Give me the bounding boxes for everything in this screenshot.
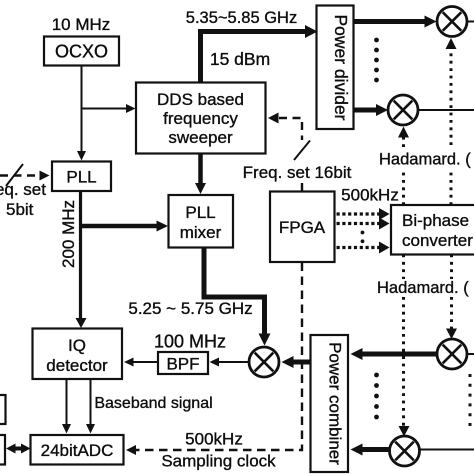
mixer M3 (437, 339, 467, 369)
block Power combiner (311, 335, 349, 472)
svg-text:PLL: PLL (66, 168, 96, 187)
wire power combiner to mixer M5 (thick) (282, 356, 311, 368)
label 500kHz (sampling clock) (185, 430, 243, 449)
mixer M2 (388, 95, 418, 125)
svg-text:converter: converter (402, 231, 473, 250)
block 24bitADC (31, 435, 124, 465)
label 5.25 ~ 5.75 GHz (128, 299, 252, 318)
dotted wire Bi-phase converter up to mixer M1 (Hadamard) (450, 49, 453, 205)
svg-text:10 MHz: 10 MHz (52, 15, 111, 34)
wire mixer M4 to power combiner (thick) (351, 444, 391, 456)
ellipsis dots between combiner inputs (374, 373, 379, 420)
dotted wire FPGA to Bi-phase converter line 2 (337, 222, 380, 225)
svg-text:200 MHz: 200 MHz (59, 200, 78, 268)
svg-text:Sampling clock: Sampling clock (161, 452, 276, 471)
svg-text:PLL: PLL (185, 203, 215, 222)
bus slash on 16bit line (294, 141, 310, 161)
wire mixer M5 to BPF (210, 358, 250, 367)
label 15 dBm (210, 49, 270, 69)
block host interface (clipped left upper) (0, 395, 6, 424)
bus slash on 5bit line (6, 164, 23, 186)
wire IQ detector to 24bitADC (baseband Q) (86, 379, 95, 434)
block PLL mixer (169, 195, 234, 248)
dotted wire FPGA to Bi-phase converter line 1 (337, 212, 380, 215)
block OCXO (44, 37, 119, 66)
mixer M1 (437, 7, 467, 37)
label 5bit (6, 200, 34, 219)
mixer M5 (249, 347, 279, 377)
svg-text:DDS based: DDS based (157, 90, 244, 109)
label Baseband signal (94, 395, 212, 412)
wire IQ detector to 24bitADC (baseband I) (62, 379, 71, 434)
svg-text:5.35~5.85 GHz: 5.35~5.85 GHz (186, 9, 297, 27)
svg-text:BPF: BPF (166, 355, 199, 374)
label 5.35~5.85 GHz (186, 9, 297, 27)
dashed wire FPGA to 24bitADC (sampling clock) (131, 263, 302, 451)
svg-text:5bit: 5bit (6, 200, 34, 219)
mixer M4 (390, 436, 420, 466)
dashed wire Freq. set 5bit into PLL (0, 174, 40, 176)
dotted wire Bi-phase converter down to mixer M3 (Hadamard) (450, 255, 453, 330)
svg-text:Hadamard. (: Hadamard. ( (379, 151, 471, 169)
label 200 MHz (rotated) (59, 200, 78, 268)
wire OCXO branch to DDS sweeper (82, 104, 136, 113)
svg-text:mixer: mixer (180, 223, 222, 242)
dotted wire Bi-phase converter down to mixer M4 (Hadamard) (402, 255, 405, 427)
wire BPF to IQ detector (124, 358, 158, 367)
svg-text:15 dBm: 15 dBm (210, 49, 270, 69)
label Sampling clock (161, 452, 276, 471)
wire 200 MHz branch to PLL mixer (thick) (81, 221, 169, 232)
dotted wire Bi-phase converter up to mixer M2 (Hadamard) (402, 137, 405, 205)
wire DDS down to PLL mixer (thick) (195, 154, 206, 195)
svg-text:Bi-phase: Bi-phase (402, 211, 469, 230)
dashed wire FPGA to DDS (Freq. set 16bit) (279, 118, 302, 191)
svg-text:sweeper: sweeper (168, 128, 233, 147)
svg-text:Power combiner: Power combiner (326, 342, 345, 465)
block IQ detector (33, 329, 123, 380)
wire mixer M1 output to right edge (467, 21, 474, 23)
wire DDS output up to power divider (5.35~5.85 GHz, thick) (201, 32, 306, 83)
label 10 MHz (52, 15, 111, 34)
svg-text:Power divider: Power divider (331, 14, 351, 120)
block BPF (158, 352, 208, 374)
svg-text:Baseband signal: Baseband signal (94, 395, 212, 412)
label Freq. set (clipped) (0, 180, 46, 199)
block Power divider (317, 6, 354, 130)
svg-text:FPGA: FPGA (279, 218, 326, 237)
dotted wire lower right channel (clipped) (469, 374, 472, 431)
svg-text:detector: detector (46, 356, 108, 375)
wire PLL 200 MHz down to IQ detector (76, 191, 87, 328)
block PLL (52, 162, 111, 192)
svg-text:Hadamard. (: Hadamard. ( (377, 279, 469, 297)
wire 24bitADC to host box (double arrow, thick) (6, 444, 31, 454)
label Hadamard lower (377, 279, 469, 297)
block Bi-phase converter (391, 205, 474, 255)
svg-text:frequency: frequency (163, 109, 238, 128)
block DDS based frequency sweeper (136, 83, 266, 154)
wire OCXO to PLL (10 MHz reference) (77, 66, 86, 161)
label 500kHz (FPGA outputs) (341, 186, 399, 205)
wire mixer M3 output to right edge (467, 353, 474, 355)
ellipsis dots between divider outputs (374, 38, 379, 83)
svg-text:OCXO: OCXO (55, 42, 108, 62)
svg-text:100 MHz: 100 MHz (154, 332, 226, 352)
wire mixer M3 to power combiner (thick) (351, 348, 437, 360)
svg-text:Freq. set 16bit: Freq. set 16bit (243, 163, 352, 182)
svg-text:Freq. set: Freq. set (0, 180, 46, 199)
svg-text:500kHz: 500kHz (341, 186, 399, 205)
block host interface (clipped left lower) (0, 435, 5, 465)
block FPGA (270, 192, 335, 263)
svg-text:IQ: IQ (68, 336, 86, 355)
wire mixer M4 output to right edge (419, 449, 474, 451)
svg-text:24bitADC: 24bitADC (41, 441, 114, 460)
dotted wire FPGA to Bi-phase converter line 3 (337, 246, 380, 249)
ellipsis dots between FPGA outputs (361, 231, 365, 244)
wire mixer M2 output to right edge (419, 109, 474, 111)
label 100 MHz (154, 332, 226, 352)
svg-text:5.25 ~ 5.75 GHz: 5.25 ~ 5.75 GHz (128, 299, 252, 318)
wire power divider to mixer M1 (thick) (354, 19, 426, 24)
label Hadamard upper (379, 151, 471, 169)
svg-text:500kHz: 500kHz (185, 430, 243, 449)
label Freq. set 16bit (243, 163, 352, 182)
wire PLL mixer to mixer M5 (5.25~5.75 GHz, thick) (204, 248, 265, 335)
wire power divider to mixer M2 (thick) (354, 108, 378, 113)
